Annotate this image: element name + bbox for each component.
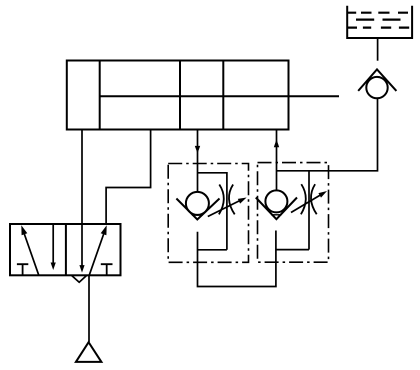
cylinder C1 piston [99, 61, 101, 130]
vent triangle [76, 342, 102, 362]
DV right position blocked port T [101, 264, 113, 275]
directional valve DV position divider [65, 224, 67, 275]
DV bottom port seat v [72, 275, 87, 282]
check valve V1 seat [176, 199, 219, 220]
throttle F1 adjust arrow [208, 200, 241, 216]
throttle F1 right arc [229, 185, 235, 215]
DV right position down arrow [81, 224, 83, 266]
wire cylinder port A to valve [81, 130, 83, 225]
wire cylinder port B jog to valve [106, 130, 151, 225]
flow control unit 1 branch pipe [198, 173, 227, 250]
cylinder C1 internal line 2 [222, 61, 224, 130]
check valve V2 seat chord [271, 214, 281, 216]
wire cylinder to left box with down arrow [197, 130, 199, 192]
throttle F2 left arc [301, 184, 306, 214]
DV left position down arrow [52, 224, 54, 264]
check valve V1 ball [186, 192, 209, 215]
cylinder C1 body [67, 61, 289, 130]
cylinder C1 internal line 1 [179, 61, 181, 130]
check valve V3 ball [366, 77, 387, 98]
tank T1 fluid dashes row 1 [347, 12, 408, 14]
check valve V2 ball [265, 190, 287, 212]
check valve V2 seat [256, 198, 297, 220]
wire U-connector between box bottoms [198, 231, 276, 287]
DV right position diagonal arrow [89, 233, 104, 276]
wire DV outlet down [88, 275, 90, 342]
check valve V1 seat chord [192, 214, 203, 216]
DV left position blocked port T [17, 264, 28, 275]
wire tank outlet [377, 38, 379, 61]
flow control unit 2 throttle branch pipe [308, 171, 310, 250]
DV left position diagonal arrow [24, 233, 39, 276]
directional valve DV body [10, 224, 121, 275]
wire right box to cylinder with up arrow [276, 130, 278, 191]
check valve V3 seat [358, 69, 396, 91]
flow control unit 2 enclosure (dash-dot) [258, 163, 329, 263]
tank T1 fluid dashes row 2 [356, 19, 401, 21]
wire check valve to right box branch [277, 98, 378, 171]
cylinder C1 piston rod [100, 95, 339, 97]
flow control unit 1 rejoin pipe [198, 249, 227, 251]
throttle F2 adjust arrow [291, 195, 321, 213]
throttle F1 left arc [219, 185, 224, 215]
tank T1 fluid dashes row 3 [347, 27, 409, 29]
flow control unit 1 enclosure (dash-dot) [168, 164, 248, 263]
flow control unit 2 rejoin pipe [276, 249, 309, 251]
throttle F2 right arc [311, 184, 317, 214]
tank T1 walls [347, 6, 412, 38]
